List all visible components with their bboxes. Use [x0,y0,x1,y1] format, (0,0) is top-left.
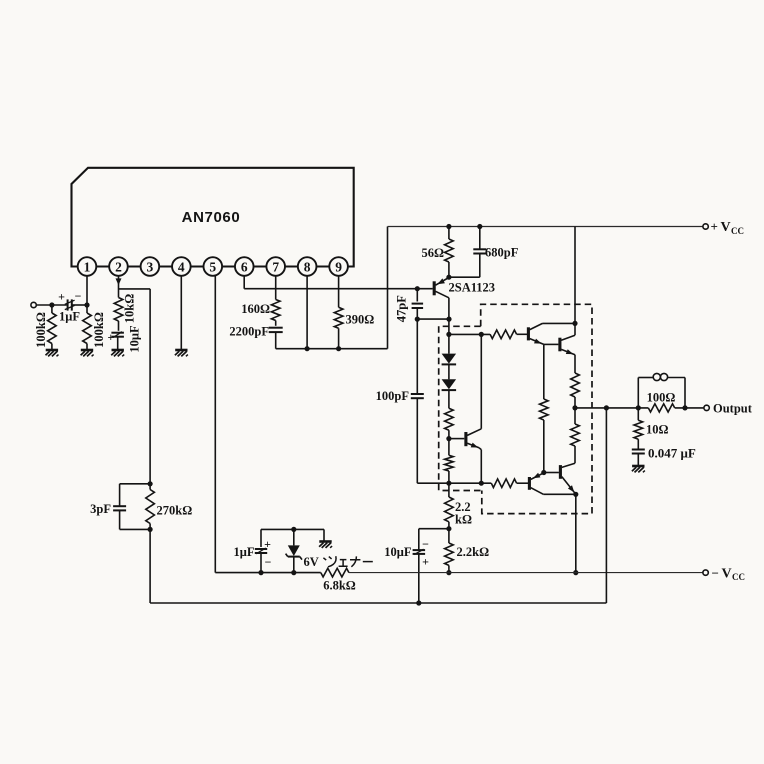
resistor R11 (bottom emitter) [574,408,576,424]
D3 label katakana na [350,556,360,566]
IC pin 4 [172,257,191,276]
node diode line 47p [446,317,451,322]
wire bus up to +Vcc rail [387,227,389,349]
transistor Q5 (bias) [464,432,467,446]
svg-text:10kΩ: 10kΩ [123,294,137,323]
capacitor C5 47pF [416,289,418,302]
svg-text:0.047 μF: 0.047 μF [648,446,696,461]
wire pin2 down [118,276,120,298]
svg-text:Output: Output [713,401,753,415]
node vline top [479,332,484,337]
wire bottom rail up to output [605,408,607,603]
svg-text:10μF: 10μF [384,545,412,559]
zener diode D3 6V [293,529,295,545]
node 270k bottom [148,527,153,532]
input terminal [31,302,36,307]
dashed box (output module) [481,304,592,513]
svg-text:−: − [265,555,272,569]
svg-text:390Ω: 390Ω [346,313,375,327]
wire Vcc down to top pair [574,227,576,336]
IC U1 AN7060 body [72,168,354,267]
inductor L1 (parallel coil) [637,378,639,408]
capacitor C4 680pF [479,227,481,250]
node zener top [291,527,296,532]
resistor R1 100k (input shunt) [51,305,53,313]
svg-text:CC: CC [732,572,745,582]
ground near zener [319,540,331,543]
capacitor C10 0.047uF [632,449,645,451]
wire bottom emitter to -Vcc [575,494,577,572]
ground under C2 [112,349,124,352]
-Vcc rail left [261,572,321,574]
wire input to C1 [36,304,67,306]
ground under C10 [632,465,644,468]
junction arrow at pin2 branch [116,278,122,285]
wire output line right [675,407,704,409]
svg-text:6.8kΩ: 6.8kΩ [323,579,356,593]
svg-text:+: + [264,537,271,551]
transistor Q6 (bottom output) [559,465,562,479]
wire Q3 emitter down [574,355,576,373]
wire bias bottom to R13 [449,482,491,484]
svg-text:270kΩ: 270kΩ [157,504,193,518]
node 2.2k mid [446,526,451,531]
svg-text:9: 9 [335,259,342,274]
resistor R17 270k [149,484,151,490]
node bias mid [446,436,451,441]
resistor R16 6.8k [321,568,349,577]
resistor R9 (top base) [490,330,516,339]
svg-text:1μF: 1μF [234,545,255,559]
IC pin 2 [109,257,128,276]
resistor R8 (bias lower) [448,439,450,456]
svg-text:+: + [108,332,115,344]
capacitor C9 3pF [120,483,151,485]
svg-text:4: 4 [178,259,185,274]
IC pin 7 [266,257,285,276]
node bias bottom [446,481,451,486]
resistor R10 (top emitter) [571,373,580,397]
resistor R5 390 [334,307,343,328]
transistor Q3 (top output) [558,338,561,352]
wire Q1 collector down [448,298,450,335]
svg-text:−: − [422,537,429,551]
node pin8 bus [305,346,310,351]
wire 2.2k mid to 10uF [419,528,449,530]
capacitor C3 2200pF [269,327,283,329]
resistor R3 10k [114,298,123,322]
node input junction [49,302,54,307]
svg-text:2200pF: 2200pF [229,325,269,339]
-Vcc rail right [349,572,703,574]
wire bias top to vline [449,333,490,335]
transistor Q4 (bottom driver) [528,477,531,490]
transistor Q2 (top driver) [527,327,530,340]
node pin6line-47p [415,286,420,291]
capacitor C1 1uF (series input) [67,299,69,310]
diode D1 [448,334,450,353]
node 2.2k bottom -Vcc [446,570,451,575]
node C7 bottom rail [416,600,421,605]
IC pin 1 [78,257,97,276]
svg-text:2SA1123: 2SA1123 [449,281,496,295]
svg-text:3: 3 [147,259,154,274]
node zener bottom [291,570,296,575]
svg-text:6V: 6V [304,555,319,569]
resistor R19 10 (zobel) [637,408,639,420]
svg-text:160Ω: 160Ω [241,302,270,316]
ground under R2 [81,349,93,352]
-Vcc terminal [703,570,708,575]
wire Q4 emitter to Q6 base [544,472,559,474]
capacitor C8 1uF [260,529,262,547]
node bottom emitter -Vcc [573,570,578,575]
wire Q4 collector to emitter node [543,493,575,495]
resistor R4 160 [271,300,280,321]
node 270k top [148,481,153,486]
svg-text:V: V [722,566,732,581]
svg-text:100Ω: 100Ω [647,391,676,405]
node bottom emitter [573,492,578,497]
capacitor C2 10uF [111,332,124,334]
node top collector [572,321,577,326]
wire 100pF to bias bottom [417,482,449,484]
node pin9 bus [336,346,341,351]
resistor R7 (bias upper) [448,390,450,408]
wire feedback down [149,289,151,484]
capacitor C7 10uF (bootstrap) [418,529,420,551]
diode D2 [448,365,450,380]
node C8 bottom [258,570,263,575]
svg-text:100kΩ: 100kΩ [92,312,106,348]
svg-text:56Ω: 56Ω [421,246,444,260]
node Vcc-680p [477,224,482,229]
wire pin6 to Q1 base [244,288,433,290]
wire 47p to diode line [417,318,449,320]
wire pin9 down [338,276,340,308]
resistor R14 2.2k (upper) [448,483,450,497]
node coil left [636,405,641,410]
svg-text:V: V [721,220,731,235]
node Vcc-56 [446,224,451,229]
svg-text:5: 5 [209,259,216,274]
node bias top [446,332,451,337]
wire pin7 down [275,276,277,300]
IC pin 3 [141,257,160,276]
svg-text:10Ω: 10Ω [646,423,669,437]
node 2SA1123 emitter [446,275,451,280]
svg-text:AN7060: AN7060 [182,209,241,226]
wire pin4 down [180,276,182,350]
dashed box (bias module) [439,326,482,490]
svg-text:+: + [58,290,65,304]
svg-text:8: 8 [304,259,311,274]
svg-text:680pF: 680pF [485,245,519,259]
wire zener top bus [261,528,324,530]
wire pin5 down to -Vcc rail [214,276,216,573]
ground under R1 [46,349,58,352]
node vline bottom [479,481,484,486]
svg-text:1: 1 [84,259,91,274]
resistor R2 100k (pin1 shunt) [86,305,88,313]
resistor R13 (bottom base) [491,479,516,488]
node output line branch [604,405,609,410]
zener ground stub [323,529,325,541]
D3 label katakana long-dash [363,561,373,563]
svg-text:−: − [75,289,82,303]
svg-text:10μF: 10μF [127,325,141,353]
svg-text:100kΩ: 100kΩ [34,312,48,348]
+Vcc terminal [703,224,708,229]
bottom feedback rail [150,602,606,604]
resistor R18 100 (output) [648,404,674,412]
resistor R6 56 [448,227,450,240]
IC pin 6 [235,257,254,276]
+Vcc rail [388,226,704,228]
transistor Q1 2SA1123 [433,281,436,295]
svg-text:7: 7 [272,259,279,274]
resistor R12 (middle) [543,344,545,399]
svg-text:3pF: 3pF [90,502,111,516]
wire bias mid to Q5 base [449,438,464,440]
wire Q5 collector up [480,334,482,428]
svg-text:kΩ: kΩ [455,513,472,527]
svg-text:6: 6 [241,259,248,274]
node 47p bottom [415,317,420,322]
node mid-resistor bottom [541,470,546,475]
wire pin8 down [306,276,308,349]
svg-text:CC: CC [731,226,744,236]
wire Q5 emitter down [480,450,482,484]
svg-text:100pF: 100pF [376,389,410,403]
svg-text:1μF: 1μF [59,310,80,324]
svg-text:47pF: 47pF [395,295,409,322]
svg-text:+: + [711,219,718,234]
resistor R15 2.2k (lower) [448,529,450,543]
svg-text:2.2kΩ: 2.2kΩ [457,545,490,559]
ground under pin4 [175,349,187,352]
wire 270k to bottom rail [149,529,151,603]
wire C2 to ground [117,337,119,350]
IC pin 9 [329,257,348,276]
wire pin2 branch to feedback [119,288,151,290]
svg-text:2: 2 [115,259,122,274]
wire Q2 emitter to Q3 base [544,343,559,345]
wire C1 to pin1 node [72,304,87,306]
D3 label katakana small-e [339,560,348,567]
wire pins7-9 bottom bus [276,348,388,350]
IC pin 8 [298,257,317,276]
D3 label katakana tsu [323,556,336,567]
wire pin1 down [86,276,88,305]
node output mid [572,405,577,410]
svg-text:−: − [712,565,719,580]
output terminal [704,405,709,410]
IC pin 5 [204,257,223,276]
node pin1 [84,302,89,307]
wire pin6 down [243,276,245,289]
node coil right [682,405,687,410]
svg-text:+: + [422,555,429,569]
wire output line [575,407,648,409]
capacitor C6 100pF [416,319,418,394]
